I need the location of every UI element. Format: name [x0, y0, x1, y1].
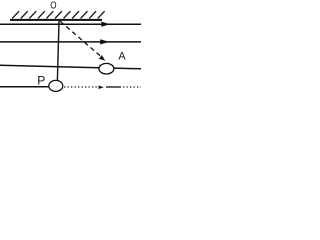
field line 3: [0, 65, 141, 69]
field line 2: [0, 41, 141, 43]
svg-text:O: O: [50, 1, 56, 12]
field line 1: [0, 23, 141, 25]
arrowhead on field line 2: [100, 39, 109, 44]
arrowhead on dotted line: [99, 86, 104, 90]
string from pivot O to ball P: [57, 21, 59, 81]
long dash after arrow on dotted line: [106, 86, 121, 88]
arrowhead on dashed line: [99, 55, 105, 61]
svg-text:A: A: [118, 51, 126, 63]
ceiling hatching: [12, 11, 104, 18]
dashed displacement line from pivot toward A: [60, 21, 101, 56]
bottom dotted line right of ball P: [64, 86, 99, 88]
bottom solid line left of ball P: [0, 86, 50, 88]
dotted tail to right edge: [123, 86, 141, 88]
arrowhead on field line 3 (hidden behind ellipse A): [100, 65, 109, 70]
svg-text:P: P: [37, 74, 45, 88]
ceiling line: [10, 19, 102, 21]
ball P: [49, 80, 63, 91]
ellipse position A: [99, 63, 114, 74]
arrowhead on field line 1: [101, 22, 110, 27]
background: [0, 0, 141, 94]
